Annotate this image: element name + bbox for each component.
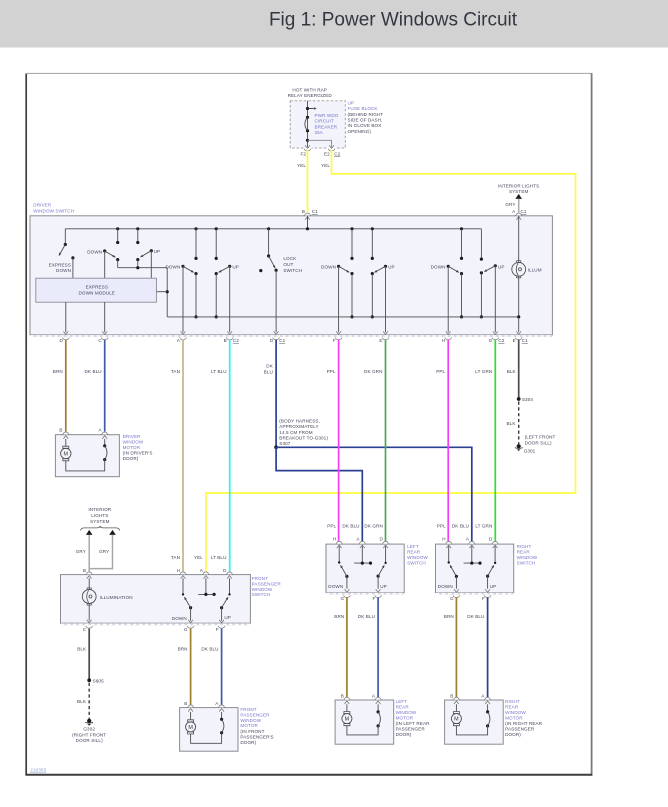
express down output contact to module bbox=[71, 256, 74, 278]
pin A front passenger switch bbox=[200, 568, 210, 578]
svg-text:UP: UP bbox=[498, 264, 505, 269]
label RIGHT REAR WINDOW MOTOR bbox=[505, 699, 543, 737]
svg-text:B: B bbox=[184, 701, 187, 706]
svg-text:BLK: BLK bbox=[507, 421, 517, 426]
pin B front passenger motor bbox=[184, 701, 194, 712]
svg-text:WINDOW: WINDOW bbox=[240, 718, 261, 723]
svg-text:B: B bbox=[341, 693, 344, 698]
svg-text:DOOR): DOOR) bbox=[396, 732, 412, 737]
diagram frame bbox=[25, 73, 592, 775]
svg-text:DRIVER: DRIVER bbox=[33, 203, 52, 208]
svg-text:E2: E2 bbox=[324, 151, 330, 156]
svg-text:TAN: TAN bbox=[171, 555, 180, 560]
switch: left rear UP (master) bbox=[374, 265, 395, 335]
node: feed junction with arrow to fuse block UP bbox=[306, 107, 317, 110]
wire DK BLU front passenger F to motor A bbox=[201, 629, 221, 705]
svg-text:DOWN: DOWN bbox=[438, 584, 453, 589]
svg-text:S605: S605 bbox=[93, 678, 104, 683]
wire motor loop left rear bbox=[347, 725, 378, 735]
svg-text:F: F bbox=[482, 596, 485, 601]
svg-text:PPL: PPL bbox=[437, 524, 446, 529]
svg-text:MOTOR: MOTOR bbox=[123, 445, 141, 450]
svg-text:UP: UP bbox=[490, 584, 497, 589]
front passenger window switch S2 box bbox=[61, 575, 251, 626]
svg-text:MOTOR: MOTOR bbox=[505, 715, 523, 720]
svg-text:LT GRN: LT GRN bbox=[475, 369, 492, 374]
pin D C1 (driver switch bottom) bbox=[270, 338, 286, 344]
pin B front passenger switch bbox=[83, 568, 93, 578]
wire DK BLU S307 to right rear switch A bbox=[276, 447, 472, 541]
pin B driver motor bbox=[59, 427, 69, 438]
pin D front passenger switch bbox=[223, 568, 233, 578]
svg-text:BREAKER: BREAKER bbox=[315, 124, 338, 129]
wire PPL driver switch H to right rear switch H bbox=[436, 340, 448, 542]
motor M driver window bbox=[61, 439, 71, 461]
svg-text:PASSENGER'S: PASSENGER'S bbox=[240, 735, 273, 740]
wire PPL driver switch F to left rear switch H bbox=[327, 340, 339, 542]
svg-text:MOTOR: MOTOR bbox=[396, 715, 414, 720]
bus stub contacts driver window bbox=[116, 227, 139, 244]
pin E C1 (driver switch bottom) bbox=[513, 338, 529, 344]
motor M front passenger window bbox=[186, 712, 196, 734]
svg-text:F: F bbox=[333, 338, 336, 343]
svg-text:210355: 210355 bbox=[30, 768, 46, 773]
svg-text:LOCK: LOCK bbox=[283, 256, 297, 261]
svg-text:C1: C1 bbox=[522, 338, 528, 343]
svg-text:SWITCH: SWITCH bbox=[283, 268, 302, 273]
wire BLK driver switch E C1 to S304 bbox=[507, 340, 519, 400]
svg-text:BLK: BLK bbox=[77, 646, 87, 651]
svg-text:DOWN: DOWN bbox=[321, 265, 336, 270]
svg-text:H: H bbox=[442, 338, 445, 343]
svg-text:DOWN: DOWN bbox=[165, 265, 180, 270]
svg-text:F: F bbox=[372, 596, 375, 601]
pin H right rear switch bbox=[442, 536, 452, 548]
bus stub contacts right rear bbox=[460, 227, 483, 261]
svg-text:D: D bbox=[489, 536, 493, 541]
svg-text:D: D bbox=[223, 568, 227, 573]
svg-text:EXPRESS: EXPRESS bbox=[49, 262, 71, 267]
wire DK BLU right rear switch F to motor A bbox=[467, 597, 487, 697]
svg-text:TAN: TAN bbox=[171, 369, 180, 374]
svg-text:DOWN MODULE: DOWN MODULE bbox=[79, 290, 116, 295]
svg-text:B: B bbox=[302, 209, 305, 214]
svg-text:APPROXIMATELY: APPROXIMATELY bbox=[279, 424, 318, 429]
svg-text:PPL: PPL bbox=[327, 524, 336, 529]
thermal element front passenger motor bbox=[220, 712, 224, 734]
wire labels above left switch bbox=[327, 524, 383, 529]
svg-text:DK BLU: DK BLU bbox=[467, 614, 484, 619]
svg-text:BLK: BLK bbox=[507, 369, 517, 374]
svg-text:REAR: REAR bbox=[396, 705, 410, 710]
svg-text:G: G bbox=[341, 596, 345, 601]
wire DK BLU left rear switch F to motor A bbox=[358, 597, 378, 697]
switch: right rear UP bbox=[485, 546, 496, 592]
off-page arrow INTERIOR LIGHTS SYSTEM (top) bbox=[498, 184, 539, 199]
motor M right rear window bbox=[451, 704, 461, 725]
svg-text:LT GRN: LT GRN bbox=[475, 524, 492, 529]
svg-text:LT BLU: LT BLU bbox=[211, 555, 227, 560]
svg-text:WINDOW: WINDOW bbox=[252, 587, 273, 592]
wire DK GRN driver switch E to left rear switch D bbox=[364, 340, 385, 542]
thermal element right rear motor bbox=[486, 704, 490, 727]
switch: front passenger UP bbox=[219, 578, 231, 623]
svg-text:DOOR SILL): DOOR SILL) bbox=[76, 738, 103, 743]
pin B C2 (driver switch bottom) bbox=[224, 338, 240, 344]
svg-text:B: B bbox=[59, 427, 62, 432]
svg-text:UP: UP bbox=[348, 100, 355, 105]
svg-text:S304: S304 bbox=[522, 397, 533, 402]
svg-text:C2: C2 bbox=[334, 151, 340, 156]
wire BRN front passenger G to motor B bbox=[178, 629, 191, 705]
svg-text:LT BLU: LT BLU bbox=[211, 369, 227, 374]
lamp ILLUM (driver switch illumination) bbox=[512, 216, 542, 335]
svg-text:(BODY HARNESS,: (BODY HARNESS, bbox=[279, 419, 320, 424]
ground G301 bbox=[515, 434, 556, 453]
pin C front passenger switch bottom bbox=[83, 626, 93, 632]
pin B right rear motor bbox=[450, 693, 460, 704]
svg-text:H: H bbox=[177, 568, 180, 573]
pin H left rear switch bbox=[333, 536, 343, 548]
pin B C1 connector on driver switch bbox=[302, 209, 318, 220]
svg-text:FUSE BLOCK: FUSE BLOCK bbox=[348, 106, 379, 111]
svg-text:BLU: BLU bbox=[264, 369, 273, 374]
module outputs to pins D and C bbox=[63, 302, 107, 334]
wire DK BLU driver switch C to driver motor A bbox=[84, 340, 104, 432]
switch: front passenger DOWN bbox=[172, 578, 193, 623]
node S307 bbox=[274, 445, 278, 449]
svg-text:LIGHTS: LIGHTS bbox=[91, 513, 108, 518]
svg-text:EXPRESS: EXPRESS bbox=[86, 284, 108, 289]
svg-text:DK GRN: DK GRN bbox=[364, 524, 382, 529]
bus stub contacts front passenger bbox=[194, 227, 217, 260]
feed bar right rear switch bbox=[464, 546, 482, 565]
wire GRY to interior lights bbox=[505, 199, 518, 213]
wire GRY front passenger illumination bbox=[76, 535, 113, 572]
svg-text:D: D bbox=[59, 338, 63, 343]
svg-text:RIGHT: RIGHT bbox=[517, 544, 532, 549]
right rear window motor box bbox=[445, 700, 504, 744]
wire LT GRN driver switch G C2 to right rear switch D bbox=[475, 340, 495, 542]
svg-text:UP: UP bbox=[388, 265, 395, 270]
svg-text:ILLUMINATION: ILLUMINATION bbox=[100, 595, 133, 600]
express down module U1 bbox=[36, 278, 157, 302]
wire BRN driver switch D to driver motor B bbox=[53, 340, 66, 432]
label LEFT REAR WINDOW MOTOR bbox=[396, 699, 430, 737]
feed bar front passenger switch bbox=[198, 578, 216, 596]
label LEFT REAR WINDOW SWITCH bbox=[407, 544, 428, 565]
svg-text:PASSENGER: PASSENGER bbox=[396, 727, 426, 732]
svg-text:(BEHIND RIGHT: (BEHIND RIGHT bbox=[348, 112, 384, 117]
svg-text:INTERIOR LIGHTS: INTERIOR LIGHTS bbox=[498, 184, 539, 189]
svg-text:S307: S307 bbox=[279, 441, 290, 446]
svg-text:SWITCH: SWITCH bbox=[252, 592, 271, 597]
label RIGHT REAR WINDOW SWITCH bbox=[517, 544, 538, 565]
node S605 bbox=[87, 678, 104, 683]
motor M left rear window bbox=[342, 704, 352, 725]
svg-text:DK BLU: DK BLU bbox=[452, 524, 469, 529]
svg-text:GRY: GRY bbox=[99, 549, 109, 554]
svg-text:E: E bbox=[379, 338, 382, 343]
pin F right rear switch bottom bbox=[482, 595, 491, 601]
svg-text:H: H bbox=[333, 536, 336, 541]
label DRIVER WINDOW MOTOR bbox=[123, 434, 153, 461]
lamp ILLUMINATION front passenger bbox=[82, 578, 132, 623]
pin G right rear switch bottom bbox=[450, 595, 460, 601]
off-page arrows INTERIOR LIGHTS SYSTEM (front passenger illumination) bbox=[80, 507, 120, 535]
pin G front passenger switch bottom bbox=[184, 626, 194, 632]
svg-text:D: D bbox=[270, 338, 274, 343]
wire YEL from E2 to front passenger window switch A bbox=[206, 150, 576, 571]
svg-text:C1: C1 bbox=[279, 338, 285, 343]
wire BLK S304 to ground G301 (dashed) bbox=[507, 402, 519, 445]
svg-text:PASSENGER: PASSENGER bbox=[240, 712, 270, 717]
svg-text:YEL: YEL bbox=[297, 163, 306, 168]
svg-text:C: C bbox=[83, 627, 87, 632]
right rear lower contacts to rail bbox=[460, 271, 483, 318]
svg-text:WINDOW: WINDOW bbox=[517, 555, 538, 560]
svg-text:G: G bbox=[489, 338, 493, 343]
svg-text:REAR: REAR bbox=[505, 705, 519, 710]
svg-text:YEL: YEL bbox=[321, 163, 330, 168]
label HOT WITH RAP RELAY ENERGIZED bbox=[288, 87, 333, 98]
svg-text:G: G bbox=[450, 596, 454, 601]
svg-text:REAR: REAR bbox=[517, 550, 531, 555]
svg-text:DK BLU: DK BLU bbox=[342, 524, 359, 529]
svg-text:HOT WITH RAP: HOT WITH RAP bbox=[292, 87, 327, 92]
svg-text:PASSENGER: PASSENGER bbox=[252, 581, 282, 586]
svg-text:DRIVER: DRIVER bbox=[123, 434, 142, 439]
svg-text:RELAY ENERGIZED: RELAY ENERGIZED bbox=[288, 93, 333, 98]
svg-text:25A: 25A bbox=[315, 130, 324, 135]
label FUSE BLOCK location bbox=[348, 100, 384, 133]
pin D left rear switch bbox=[379, 536, 389, 548]
svg-text:GRY: GRY bbox=[76, 549, 86, 554]
pin A C1 connector bump on driver switch bbox=[515, 213, 523, 220]
pin B left rear motor bbox=[341, 693, 351, 704]
svg-text:F: F bbox=[216, 627, 219, 632]
svg-text:OUT: OUT bbox=[283, 262, 293, 267]
wire BRN left rear switch G to motor B bbox=[334, 597, 347, 697]
svg-text:GRY: GRY bbox=[505, 202, 515, 207]
switch: right rear UP (master) bbox=[484, 264, 505, 334]
svg-text:M: M bbox=[345, 717, 350, 723]
svg-text:Fig 1: Power Windows Circuit: Fig 1: Power Windows Circuit bbox=[269, 10, 518, 31]
svg-text:DOOR): DOOR) bbox=[123, 456, 139, 461]
svg-text:REAR: REAR bbox=[407, 550, 421, 555]
left rear lower contacts to rail bbox=[350, 272, 374, 319]
svg-text:BLK: BLK bbox=[77, 699, 87, 704]
svg-text:H: H bbox=[442, 536, 445, 541]
svg-text:BRN: BRN bbox=[444, 614, 454, 619]
switch: express down contact from bus bbox=[64, 229, 67, 246]
svg-text:DOWN: DOWN bbox=[328, 584, 343, 589]
svg-text:UP: UP bbox=[232, 265, 239, 270]
node S304 bbox=[517, 397, 534, 402]
wire TAN driver switch A to front passenger switch H bbox=[171, 340, 183, 572]
common return rail in driver switch bbox=[167, 316, 519, 318]
label FRONT PASSENGER WINDOW MOTOR bbox=[240, 707, 273, 745]
svg-text:FRONT: FRONT bbox=[240, 707, 256, 712]
svg-text:WINDOW: WINDOW bbox=[505, 710, 526, 715]
svg-text:DOWN: DOWN bbox=[172, 616, 187, 621]
pin D (driver switch bottom) bbox=[59, 338, 69, 344]
bus stub contacts left rear bbox=[350, 227, 374, 260]
pin D right rear switch bbox=[489, 536, 499, 548]
svg-text:BREAKOUT TO-G301): BREAKOUT TO-G301) bbox=[279, 436, 328, 441]
wire motor loop driver bbox=[66, 460, 105, 471]
switch: driver window DOWN bbox=[87, 249, 116, 278]
pin A C1 (driver window switch illumination) bbox=[512, 209, 527, 214]
svg-text:(IN FRONT: (IN FRONT bbox=[240, 729, 264, 734]
svg-text:SWITCH: SWITCH bbox=[517, 560, 536, 565]
switch: left rear DOWN (master) bbox=[321, 265, 350, 335]
svg-text:14.5 CM FROM: 14.5 CM FROM bbox=[279, 430, 312, 435]
svg-text:DK GRN: DK GRN bbox=[364, 369, 382, 374]
pin A right rear switch bbox=[466, 536, 476, 548]
wire motor loop right rear bbox=[456, 725, 487, 735]
svg-text:DOWN: DOWN bbox=[431, 265, 446, 270]
pin G C2 (driver switch bottom) bbox=[489, 338, 505, 344]
svg-text:DK: DK bbox=[266, 363, 273, 368]
pin E2 connector C2 bbox=[324, 145, 341, 156]
pin A front passenger motor bbox=[215, 701, 225, 712]
pin A right rear motor bbox=[481, 693, 491, 704]
svg-text:PPL: PPL bbox=[436, 369, 445, 374]
svg-text:DOOR SILL): DOOR SILL) bbox=[525, 440, 552, 445]
label body harness S307 bbox=[279, 419, 328, 447]
svg-text:DOOR): DOOR) bbox=[240, 740, 256, 745]
svg-text:UP: UP bbox=[380, 584, 387, 589]
pin F (driver switch bottom) bbox=[333, 338, 342, 344]
svg-text:WINDOW: WINDOW bbox=[123, 440, 144, 445]
svg-text:WINDOW: WINDOW bbox=[396, 710, 417, 715]
svg-text:UP: UP bbox=[224, 615, 231, 620]
pin A (driver switch bottom) bbox=[177, 338, 186, 344]
svg-text:SYSTEM: SYSTEM bbox=[509, 189, 529, 194]
label FRONT PASSENGER WINDOW SWITCH bbox=[252, 576, 282, 597]
switch: LOCK OUT bbox=[259, 227, 302, 334]
fuse block (dashed box) bbox=[290, 101, 345, 148]
switch: front passenger DOWN (master) bbox=[165, 265, 194, 335]
pin G left rear switch bottom bbox=[341, 595, 351, 601]
wire LT BLU driver switch B C2 to front passenger switch D bbox=[211, 340, 230, 572]
svg-text:SIDE OF DASH,: SIDE OF DASH, bbox=[348, 118, 383, 123]
wire BLK S605 to ground G302 (dashed) bbox=[77, 683, 89, 719]
wire DK BLU S307 to left rear switch A bbox=[276, 447, 362, 541]
switch: left rear DOWN bbox=[328, 546, 349, 592]
svg-text:B: B bbox=[83, 568, 86, 573]
wire labels above right switch bbox=[437, 524, 493, 529]
svg-text:D: D bbox=[379, 536, 383, 541]
driver window switch S1 box bbox=[30, 203, 552, 337]
svg-text:DK BLU: DK BLU bbox=[84, 369, 101, 374]
svg-text:LEFT: LEFT bbox=[396, 699, 408, 704]
svg-text:PPL: PPL bbox=[327, 369, 336, 374]
svg-text:C2: C2 bbox=[233, 338, 239, 343]
wire DK BLU driver switch D C1 to node S307 bbox=[264, 340, 276, 448]
pin F2 connector bbox=[300, 145, 311, 156]
thermal element driver motor bbox=[103, 439, 107, 461]
svg-text:ILLUM: ILLUM bbox=[528, 267, 542, 272]
svg-text:WINDOW SWITCH: WINDOW SWITCH bbox=[33, 208, 74, 213]
pin E (driver switch bottom) bbox=[379, 338, 388, 344]
svg-text:M: M bbox=[64, 452, 69, 458]
title bar bbox=[0, 0, 668, 48]
svg-text:UP: UP bbox=[154, 249, 161, 254]
svg-text:(IN LEFT REAR: (IN LEFT REAR bbox=[396, 721, 430, 726]
svg-text:(IN DRIVER'S: (IN DRIVER'S bbox=[123, 451, 153, 456]
switch: left rear UP bbox=[376, 546, 387, 592]
svg-text:LEFT: LEFT bbox=[407, 544, 419, 549]
svg-text:M: M bbox=[188, 725, 193, 731]
wire inside fuse block bbox=[307, 101, 309, 148]
pin A left rear switch bbox=[356, 536, 366, 548]
wire YEL from F2 to driver window switch B C1 bbox=[297, 150, 307, 213]
wire BLK front passenger C to S605 bbox=[77, 629, 89, 681]
pin H front passenger switch bbox=[177, 568, 187, 578]
wire BRN right rear switch G to motor B bbox=[444, 597, 457, 697]
front passenger lower contacts to rail bbox=[194, 272, 217, 319]
front passenger window motor M2 box bbox=[180, 708, 238, 752]
left rear window motor box bbox=[335, 700, 394, 744]
svg-text:(LEFT FRONT: (LEFT FRONT bbox=[525, 434, 556, 439]
svg-text:FRONT: FRONT bbox=[252, 576, 268, 581]
wire labels above front passenger switch bbox=[171, 555, 227, 560]
svg-text:PASSENGER: PASSENGER bbox=[505, 727, 535, 732]
switch: front passenger UP (master) bbox=[218, 265, 239, 335]
svg-text:B: B bbox=[450, 693, 453, 698]
pin F front passenger switch bottom bbox=[216, 626, 225, 632]
driver window motor M1 box bbox=[55, 435, 119, 477]
svg-text:WINDOW: WINDOW bbox=[407, 555, 428, 560]
svg-text:SYSTEM: SYSTEM bbox=[90, 519, 110, 524]
thermal element left rear motor bbox=[377, 704, 381, 727]
svg-text:IN GLOVE BOX: IN GLOVE BOX bbox=[348, 123, 382, 128]
svg-text:SWITCH: SWITCH bbox=[407, 560, 426, 565]
svg-text:G301: G301 bbox=[524, 449, 536, 454]
svg-text:YEL: YEL bbox=[194, 555, 203, 560]
svg-text:(RIGHT FRONT: (RIGHT FRONT bbox=[72, 732, 106, 737]
svg-text:BRN: BRN bbox=[178, 646, 188, 651]
svg-text:CIRCUIT: CIRCUIT bbox=[315, 119, 334, 124]
pin F left rear switch bottom bbox=[372, 595, 381, 601]
feed bar left rear switch bbox=[354, 546, 372, 565]
svg-text:F2: F2 bbox=[300, 151, 306, 156]
pin H (driver switch bottom) bbox=[442, 338, 452, 344]
svg-text:INTERIOR: INTERIOR bbox=[88, 507, 111, 512]
svg-text:BRN: BRN bbox=[53, 369, 63, 374]
svg-text:PWR WDO: PWR WDO bbox=[315, 113, 339, 118]
switch: right rear DOWN (master) bbox=[431, 265, 460, 335]
switch: right rear DOWN bbox=[438, 546, 459, 592]
svg-text:RIGHT: RIGHT bbox=[505, 699, 520, 704]
svg-text:G302: G302 bbox=[83, 727, 95, 732]
pin C (driver switch bottom) bbox=[98, 338, 108, 344]
wire motor loop front passenger bbox=[191, 733, 222, 744]
svg-text:C1: C1 bbox=[312, 209, 318, 214]
wire from breaker to E2 terminal bbox=[306, 139, 332, 148]
svg-text:E: E bbox=[513, 338, 516, 343]
svg-text:C: C bbox=[98, 338, 102, 343]
svg-text:DOWN: DOWN bbox=[56, 268, 71, 273]
ground G302 bbox=[72, 719, 106, 743]
svg-text:BRN: BRN bbox=[334, 614, 344, 619]
svg-text:(IN RIGHT REAR: (IN RIGHT REAR bbox=[505, 721, 543, 726]
switch lever: EXPRESS DOWN bbox=[49, 245, 71, 274]
svg-text:DOWN: DOWN bbox=[87, 249, 102, 254]
svg-text:MOTOR: MOTOR bbox=[240, 723, 258, 728]
